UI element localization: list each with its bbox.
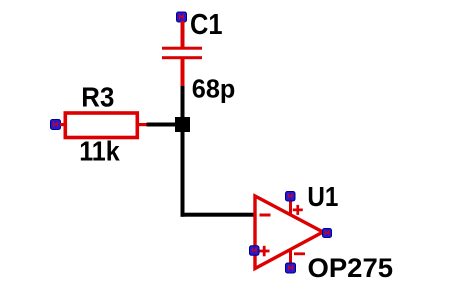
wire C1 top: [181, 21, 185, 48]
capacitor C1: [162, 47, 202, 60]
wire R3 left stub: [60, 123, 65, 126]
junction node: [175, 117, 190, 132]
svg-text:68p: 68p: [192, 74, 236, 104]
V- minus marker: [294, 252, 305, 255]
wire to inverting input (horizontal): [181, 213, 254, 217]
wire C1 bottom (red): [181, 59, 185, 87]
port P1 (C1 top terminal): [177, 12, 187, 22]
svg-text:U1: U1: [307, 181, 338, 212]
pin V+ stub: [289, 200, 292, 215]
wire R3 right stub: [139, 123, 147, 126]
port V+ pin: [286, 192, 296, 202]
V+ plus marker: [293, 205, 303, 215]
svg-text:11k: 11k: [79, 136, 120, 167]
port non-inverting input pin: [250, 246, 260, 256]
wire junction to op-amp (vertical): [181, 131, 185, 217]
svg-text:OP275: OP275: [308, 253, 394, 283]
wire C1 to junction: [181, 86, 185, 119]
op-amp U1 body: [255, 196, 323, 269]
svg-text:R3: R3: [81, 82, 114, 113]
resistor R3: [65, 113, 137, 138]
pin V- stub: [289, 250, 292, 265]
port V- pin: [286, 263, 296, 273]
wire R3 to junction: [147, 123, 183, 127]
svg-text:C1: C1: [190, 9, 223, 41]
port output pin: [323, 229, 332, 238]
inverting input marker (-): [260, 214, 271, 217]
port P2 (R3 left terminal): [51, 120, 61, 130]
non-inverting input marker (+): [259, 246, 270, 256]
